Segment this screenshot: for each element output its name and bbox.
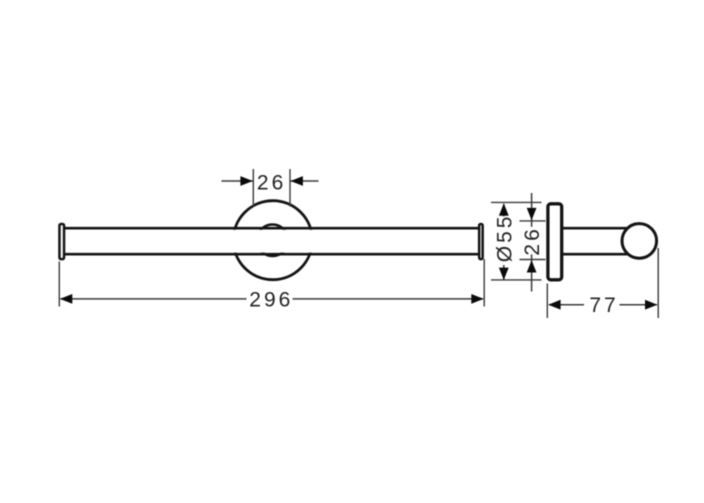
dim 77 line xyxy=(549,304,657,306)
dim Ø55 extension lines xyxy=(491,202,542,280)
bar top edge xyxy=(64,227,481,230)
front view: hub circle Ø26 xyxy=(257,225,289,257)
dim 77 right arrow xyxy=(645,300,657,310)
dim 26 (side) line xyxy=(531,193,533,292)
bar bottom edge xyxy=(64,253,481,256)
dim 77 extension lines xyxy=(547,248,658,318)
side view: ball end xyxy=(622,224,657,259)
dim 26 (side) top arrow xyxy=(527,208,537,220)
dim 26 (front) extension lines xyxy=(253,169,290,207)
side view: rod bottom edge xyxy=(562,253,629,256)
svg-text:26: 26 xyxy=(257,171,286,194)
dim 26 (front) right arrow xyxy=(291,176,303,186)
dim 26 (side) bottom arrow xyxy=(527,260,537,272)
dim Ø55 bottom arrow xyxy=(499,268,509,280)
front view: wall plate circle xyxy=(233,201,312,280)
side view: rod top edge xyxy=(562,227,629,230)
dim 296 left arrow xyxy=(60,294,72,304)
left end cap xyxy=(59,224,64,259)
dim 296 right arrow xyxy=(471,294,483,304)
dim Ø55 label gap xyxy=(496,217,513,266)
svg-text:296: 296 xyxy=(249,288,293,311)
dim Ø55 line xyxy=(503,204,505,280)
dim 26 (front) left arrow xyxy=(240,176,252,186)
dim 26 (side) ticks xyxy=(520,221,546,260)
side view: wall plate xyxy=(548,204,562,280)
dim 77 left arrow xyxy=(548,300,560,310)
right end cap xyxy=(479,224,483,259)
svg-text:26: 26 xyxy=(521,226,544,255)
dim 296 extension lines xyxy=(59,259,484,307)
svg-text:77: 77 xyxy=(589,294,618,317)
dim 26 (side) label gap xyxy=(524,227,541,255)
dim 26 (front) leaders xyxy=(222,180,319,182)
bar body fill xyxy=(60,230,482,253)
dim Ø55 top arrow xyxy=(499,203,509,215)
side view: rod fill xyxy=(562,230,630,253)
svg-text:Ø55: Ø55 xyxy=(493,214,516,263)
dim 296 line xyxy=(61,298,484,300)
